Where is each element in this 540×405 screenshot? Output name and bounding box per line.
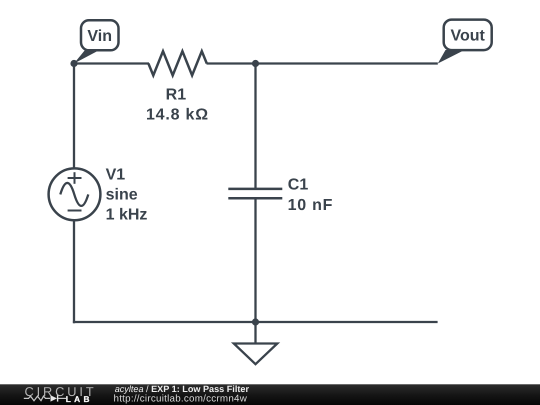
svg-text:LAB: LAB — [66, 394, 90, 404]
svg-text:10 nF: 10 nF — [288, 197, 334, 214]
capacitor C1 — [228, 189, 282, 198]
footer title: author and schematic name — [115, 384, 250, 394]
footer bar — [0, 384, 540, 405]
node ground junction dot — [252, 318, 259, 325]
bottom rail wire — [73, 321, 438, 323]
wire Vin node down to V1 — [73, 64, 75, 170]
wire junction node to Vout flag — [256, 62, 438, 64]
node Vin junction dot — [70, 60, 77, 67]
footer url — [114, 393, 248, 404]
svg-text:http://circuitlab.com/ccrmn4w: http://circuitlab.com/ccrmn4w — [114, 393, 248, 404]
label V1 — [106, 167, 148, 224]
CircuitLab logo wordmark LAB — [66, 394, 90, 404]
label R1 — [166, 87, 187, 104]
resistor R1 — [148, 51, 206, 75]
net flag Vin — [74, 20, 119, 63]
label C1 — [288, 177, 334, 214]
svg-text:Vout: Vout — [451, 28, 486, 45]
node R1-C1 junction dot — [252, 60, 259, 67]
svg-text:Vin: Vin — [87, 28, 112, 45]
ground symbol — [234, 322, 277, 364]
label R1 value 14.8 kOhm — [146, 106, 209, 123]
wire junction node down to capacitor C1 — [254, 64, 256, 189]
svg-text:sine: sine — [106, 187, 138, 204]
svg-text:V1: V1 — [106, 167, 126, 184]
wire Vin node to resistor R1 — [74, 62, 149, 64]
wire capacitor C1 to bottom rail — [254, 198, 256, 322]
wire R1 to junction node — [207, 62, 256, 64]
CircuitLab logo resistor-diode glyph — [24, 395, 66, 401]
svg-text:R1: R1 — [166, 87, 187, 104]
voltage source V1 — [49, 168, 101, 220]
CircuitLab logo wordmark CIRCUIT — [25, 384, 94, 399]
svg-text:1 kHz: 1 kHz — [106, 207, 148, 224]
svg-text:acyltea / EXP 1: Low Pass Filt: acyltea / EXP 1: Low Pass Filter — [115, 384, 250, 394]
svg-text:C1: C1 — [288, 177, 309, 194]
svg-text:14.8 kΩ: 14.8 kΩ — [146, 106, 209, 123]
wire V1 to bottom rail — [73, 220, 75, 323]
net flag Vout — [438, 20, 492, 64]
